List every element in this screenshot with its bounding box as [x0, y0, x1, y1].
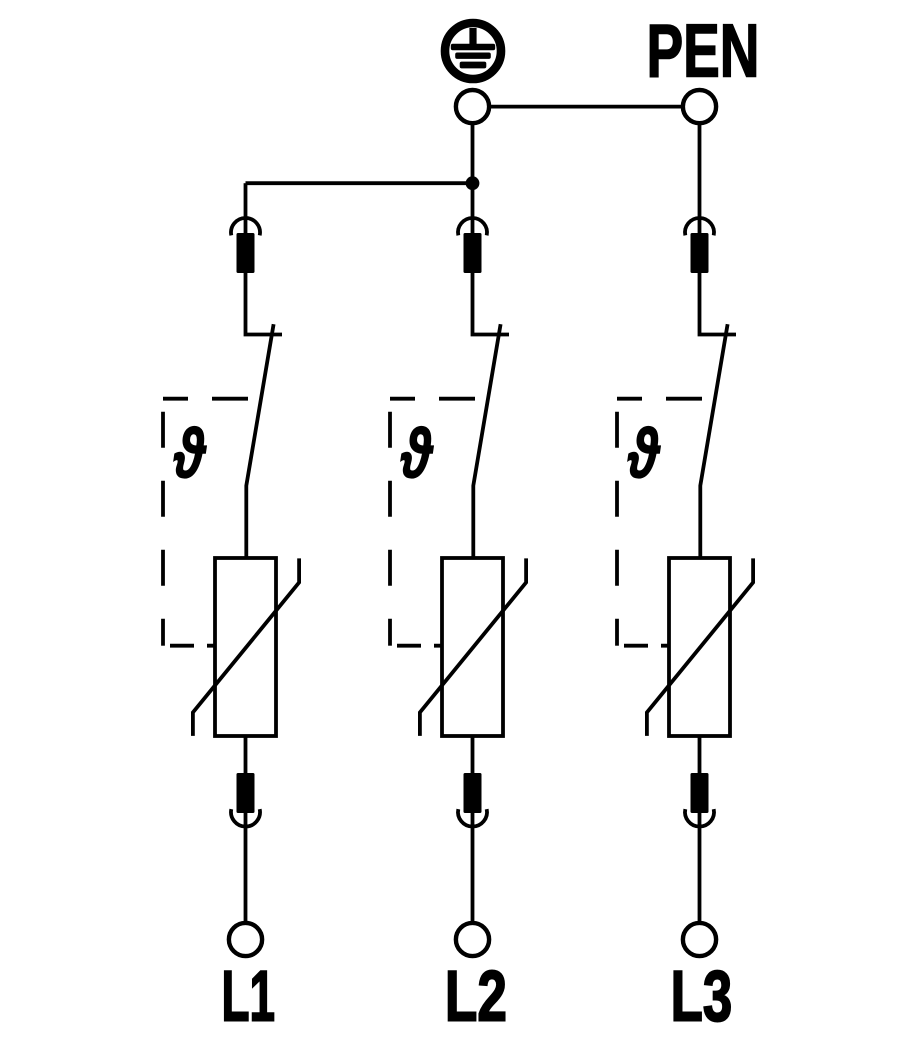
svg-text:L2: L2 [445, 957, 507, 1036]
svg-text:L3: L3 [671, 957, 733, 1036]
svg-text:L1: L1 [222, 957, 276, 1036]
svg-text:PEN: PEN [647, 9, 760, 93]
